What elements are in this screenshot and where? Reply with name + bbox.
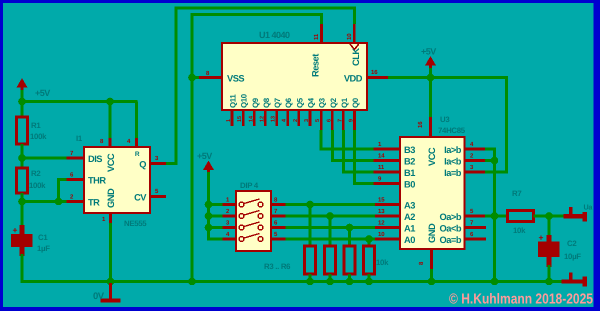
svg-text:14: 14 — [248, 115, 254, 122]
svg-text:1: 1 — [226, 119, 232, 122]
svg-text:+5V: +5V — [421, 47, 436, 57]
svg-text:100k: 100k — [29, 181, 46, 190]
svg-text:10µF: 10µF — [564, 252, 581, 261]
svg-text:13: 13 — [271, 116, 277, 122]
svg-text:10k: 10k — [376, 258, 389, 267]
svg-text:© H.Kuhlmann 2018-2025: © H.Kuhlmann 2018-2025 — [449, 292, 593, 308]
svg-text:B0: B0 — [404, 180, 415, 190]
svg-text:Q2: Q2 — [329, 97, 338, 108]
svg-text:16: 16 — [417, 121, 424, 128]
svg-text:Q5: Q5 — [295, 97, 304, 108]
svg-text:I1: I1 — [76, 134, 83, 143]
svg-text:74HC85: 74HC85 — [438, 126, 466, 135]
svg-text:+: + — [539, 233, 544, 243]
svg-text:TR: TR — [88, 198, 100, 208]
svg-text:C2: C2 — [567, 239, 577, 248]
svg-text:Q3: Q3 — [318, 97, 327, 108]
svg-text:A2: A2 — [404, 212, 415, 222]
svg-text:100k: 100k — [30, 132, 47, 141]
svg-text:DIP 4: DIP 4 — [240, 181, 259, 190]
svg-text:Oa=b: Oa=b — [439, 235, 461, 245]
svg-text:Q11: Q11 — [229, 94, 238, 108]
svg-text:2: 2 — [293, 119, 299, 122]
svg-text:10: 10 — [378, 231, 385, 238]
svg-text:R: R — [135, 151, 140, 158]
svg-text:11: 11 — [378, 164, 385, 171]
svg-text:CLK: CLK — [351, 48, 361, 66]
svg-text:+5V: +5V — [197, 151, 212, 161]
svg-text:R1: R1 — [31, 121, 41, 130]
svg-text:CV: CV — [134, 193, 147, 203]
svg-text:Q8: Q8 — [262, 97, 271, 108]
svg-text:1µF: 1µF — [37, 244, 50, 253]
svg-text:R3 .. R6: R3 .. R6 — [264, 262, 291, 271]
svg-text:Ua: Ua — [584, 203, 594, 212]
svg-text:14: 14 — [378, 153, 385, 160]
svg-text:Q10: Q10 — [240, 93, 249, 108]
svg-text:GND: GND — [106, 188, 116, 208]
svg-text:NE555: NE555 — [124, 219, 147, 228]
svg-text:Q6: Q6 — [284, 97, 293, 108]
svg-text:13: 13 — [378, 208, 385, 215]
svg-text:VSS: VSS — [227, 74, 244, 84]
svg-text:10k: 10k — [513, 226, 526, 235]
svg-text:GND: GND — [427, 223, 437, 243]
svg-text:Q0: Q0 — [351, 97, 360, 108]
svg-text:Ia<b: Ia<b — [444, 157, 462, 167]
svg-text:R7: R7 — [512, 189, 521, 198]
svg-text:Q9: Q9 — [251, 97, 260, 108]
svg-text:Oa>b: Oa>b — [439, 212, 461, 222]
svg-text:Q: Q — [139, 160, 146, 170]
svg-text:Ia=b: Ia=b — [444, 168, 462, 178]
svg-text:9: 9 — [349, 119, 355, 122]
svg-text:B1: B1 — [404, 168, 415, 178]
svg-text:15: 15 — [378, 197, 385, 204]
svg-text:10: 10 — [346, 33, 353, 40]
svg-text:Ia>b: Ia>b — [444, 145, 462, 155]
svg-text:Q7: Q7 — [273, 98, 282, 108]
svg-text:B3: B3 — [404, 145, 415, 155]
svg-text:Oa<b: Oa<b — [439, 224, 461, 234]
svg-text:VCC: VCC — [427, 147, 437, 166]
svg-text:+5V: +5V — [35, 88, 50, 98]
svg-text:A3: A3 — [404, 201, 415, 211]
svg-text:DIS: DIS — [88, 154, 102, 164]
svg-text:A1: A1 — [404, 224, 415, 234]
svg-text:5: 5 — [315, 119, 321, 122]
svg-text:U1 4040: U1 4040 — [259, 30, 290, 40]
svg-text:Reset: Reset — [311, 54, 321, 77]
svg-text:12: 12 — [378, 220, 385, 227]
svg-text:+: + — [13, 225, 18, 235]
svg-text:15: 15 — [237, 116, 243, 122]
svg-text:C1: C1 — [38, 233, 48, 242]
svg-text:R2: R2 — [31, 169, 41, 178]
svg-text:7: 7 — [337, 119, 343, 122]
svg-text:THR: THR — [88, 176, 106, 186]
svg-text:3: 3 — [304, 119, 310, 122]
svg-text:11: 11 — [313, 33, 320, 40]
svg-text:A0: A0 — [404, 235, 415, 245]
svg-text:Q1: Q1 — [340, 97, 349, 108]
svg-text:B2: B2 — [404, 157, 415, 167]
svg-text:0V: 0V — [93, 291, 105, 302]
svg-text:12: 12 — [259, 116, 265, 122]
svg-text:16: 16 — [371, 69, 378, 76]
svg-text:VCC: VCC — [106, 153, 116, 172]
svg-text:U3: U3 — [440, 115, 450, 124]
svg-text:Q4: Q4 — [306, 97, 315, 108]
svg-text:6: 6 — [326, 119, 332, 122]
svg-text:VDD: VDD — [344, 74, 363, 84]
